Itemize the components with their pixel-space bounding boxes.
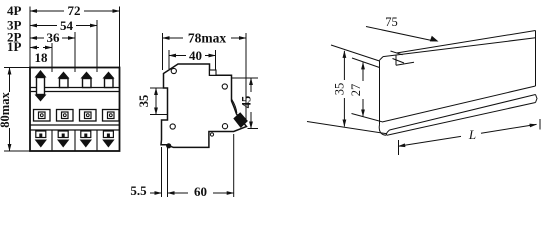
toggle lever (black) [234, 113, 247, 127]
pole divider ticks top [51, 68, 53, 73]
dimension 60 (bottom) [168, 134, 234, 199]
bottom terminal pole 4 [102, 131, 114, 148]
extension line from rail top-front corner [331, 45, 380, 61]
svg-text:27: 27 [349, 84, 363, 97]
extension line bottom (curl) [307, 122, 387, 134]
dimension 5.5 (bottom) [130, 147, 161, 198]
bottom pole dividers [51, 130, 53, 151]
upper band (two horizontal lines) [30, 87, 120, 89]
rail top front edge [383, 38, 536, 57]
svg-text:18: 18 [35, 50, 49, 65]
rail lip bottom edge [396, 62, 414, 65]
svg-text:36: 36 [47, 30, 61, 45]
rail left end: flange depth edge [391, 51, 403, 55]
clip black dot [166, 143, 171, 148]
dimension L [398, 119, 540, 155]
rail top back edge [397, 31, 536, 54]
side body outline [161, 64, 247, 147]
toggle handle pole 4 [103, 110, 120, 122]
rail curl top edge [390, 95, 536, 131]
pole 2 top terminal [58, 72, 70, 88]
rail bottom fold edge [382, 86, 536, 122]
svg-text:L: L [468, 127, 476, 142]
bottom terminal pole 1 [35, 131, 47, 148]
rail right end face [535, 31, 537, 87]
extension line for 27 bottom [352, 114, 383, 122]
svg-text:35: 35 [333, 83, 347, 96]
rail left end: corner connector [380, 57, 384, 61]
extension line x=97 (54/3P) [96, 20, 98, 68]
rail left end: lip depth edge [393, 59, 405, 64]
svg-text:45: 45 [240, 96, 254, 109]
pole 3 top terminal [81, 72, 93, 88]
toggle handle pole 1 [34, 110, 51, 122]
dimension 35 (side view left) [137, 88, 168, 115]
bottom terminal pole 2 [57, 131, 69, 148]
breaker body outline (front view) [30, 68, 120, 152]
dimension 72 [30, 3, 120, 18]
bottom terminal pole 3 [80, 131, 92, 148]
rivet bottom-right [222, 124, 227, 129]
small hole bottom right [210, 133, 213, 136]
rail left end: lip vertical [395, 55, 397, 65]
svg-text:5.5: 5.5 [130, 183, 147, 198]
extension line x=52 (18/1P) [51, 43, 53, 68]
toggle slot arc [232, 99, 237, 113]
label 3P [7, 18, 22, 33]
rivet bottom-left [170, 124, 175, 129]
dimension 35 (rail) [333, 51, 347, 127]
dimension 78max [163, 31, 247, 121]
pole 1 top terminal: up arrow [35, 70, 47, 102]
rail curl [379, 125, 386, 136]
svg-text:1P: 1P [7, 39, 22, 54]
svg-text:78max: 78max [188, 31, 226, 46]
small square bump on top step [210, 70, 217, 75]
pole 4 top terminal [103, 72, 115, 88]
dimension 40 [169, 48, 216, 70]
rail right end curl cut [536, 95, 538, 103]
lower band (two horizontal lines) [30, 124, 120, 126]
svg-text:60: 60 [194, 184, 207, 199]
svg-text:80max: 80max [0, 92, 12, 128]
label 2P [7, 30, 22, 45]
label 4P [7, 3, 22, 18]
svg-text:35: 35 [137, 95, 151, 108]
toggle handle pole 3 [80, 110, 97, 122]
rail curl bottom edge [387, 103, 536, 136]
dimension 54 [30, 18, 97, 33]
rivet top-right [222, 84, 227, 89]
extension line x=119.5 (72/4P) [119, 7, 121, 68]
rivet top-left [171, 68, 176, 73]
dimension 36 [30, 30, 75, 45]
svg-text:72: 72 [68, 3, 81, 18]
label 1P [7, 39, 22, 54]
dimension 45 (side view right) [232, 78, 259, 129]
dimension 18 [30, 48, 52, 66]
dimension 80max (vertical, left of body) [0, 68, 30, 152]
svg-text:4P: 4P [7, 3, 22, 18]
extension line for 27 top [352, 58, 380, 68]
extension line x=30 (left datum) [29, 7, 31, 68]
toggle handle pole 2 [57, 110, 74, 122]
svg-text:40: 40 [189, 48, 202, 63]
svg-text:54: 54 [60, 18, 74, 33]
extension line x=75 (36/2P) [74, 32, 76, 68]
dimension 75 leader [366, 15, 439, 42]
dimension 27 (rail) [349, 62, 363, 116]
rail left end: front vertical [379, 60, 381, 125]
svg-text:75: 75 [385, 15, 398, 29]
